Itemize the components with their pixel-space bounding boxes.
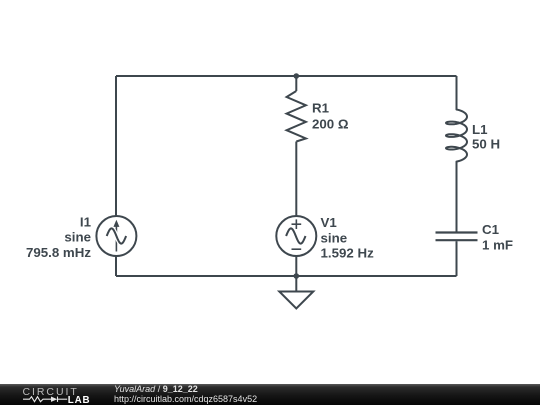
wire bottom rail xyxy=(116,275,457,277)
svg-text:1.592 Hz: 1.592 Hz xyxy=(321,246,375,261)
current source I1 xyxy=(96,216,136,256)
CircuitLab logo xyxy=(0,384,110,405)
wire left branch lower xyxy=(115,256,117,276)
wire left branch upper xyxy=(115,76,117,216)
svg-text:200 Ω: 200 Ω xyxy=(312,117,349,132)
wire right branch middle xyxy=(456,162,458,232)
svg-text:L1: L1 xyxy=(472,122,488,137)
wire middle below V1 to ground xyxy=(295,256,297,292)
svg-text:1 mF: 1 mF xyxy=(482,238,513,253)
node junction on top rail xyxy=(294,73,300,79)
wire right branch bottom xyxy=(456,241,458,276)
capacitor C1 xyxy=(436,233,478,241)
svg-text:50 H: 50 H xyxy=(472,137,500,152)
wire middle top stub xyxy=(295,76,297,91)
voltage source V1 xyxy=(276,216,316,256)
svg-text:I1: I1 xyxy=(80,215,92,230)
wire top rail xyxy=(116,75,457,77)
svg-text:V1: V1 xyxy=(321,215,338,230)
resistor R1 xyxy=(287,91,306,142)
wire middle between R1 and V1 xyxy=(295,142,297,217)
svg-text:sine: sine xyxy=(321,230,348,245)
svg-text:795.8 mHz: 795.8 mHz xyxy=(26,245,91,260)
inductor L1 xyxy=(446,110,467,162)
svg-text:sine: sine xyxy=(64,230,91,245)
node junction on bottom rail xyxy=(294,273,300,279)
svg-text:R1: R1 xyxy=(312,101,330,116)
svg-text:LAB: LAB xyxy=(68,395,91,405)
footer title text xyxy=(114,385,257,405)
svg-text:C1: C1 xyxy=(482,222,500,237)
ground xyxy=(279,292,313,309)
wire right branch top xyxy=(456,76,458,110)
footer bar xyxy=(0,384,540,405)
